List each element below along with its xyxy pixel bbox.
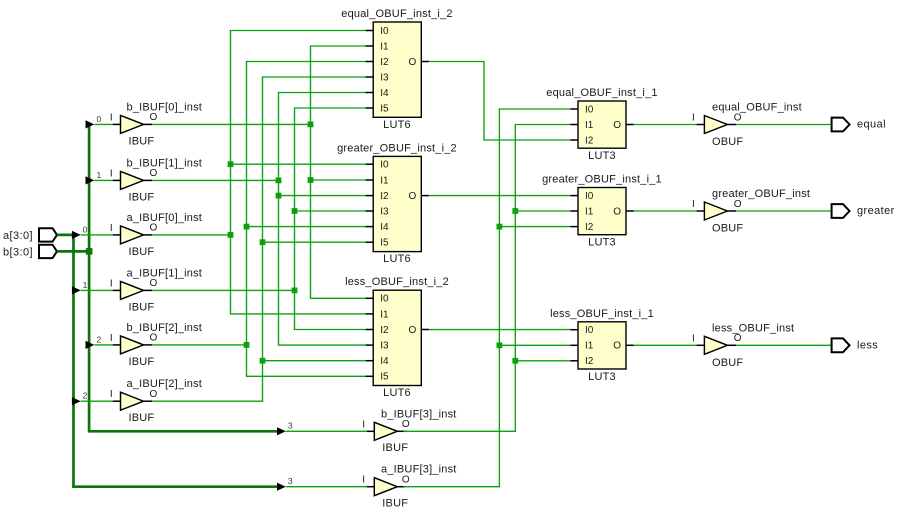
svg-text:equal_OBUF_inst_i_1: equal_OBUF_inst_i_1	[546, 87, 657, 99]
bus tap arrow a[1] bit 1	[72, 280, 88, 295]
svg-text:b_IBUF[0]_inst: b_IBUF[0]_inst	[127, 101, 203, 113]
wire a3 to greater_i_1 I2	[497, 224, 571, 230]
svg-text:a_IBUF[2]_inst: a_IBUF[2]_inst	[127, 378, 203, 390]
junction a0 source	[228, 232, 234, 238]
svg-text:IBUF: IBUF	[382, 442, 408, 454]
wire net a2 vertical	[262, 77, 264, 401]
svg-text:I3: I3	[380, 72, 389, 83]
wire a3 to equal_i_1 I0	[499, 108, 571, 110]
svg-text:I: I	[110, 168, 113, 179]
svg-text:I3: I3	[380, 206, 389, 217]
svg-text:O: O	[150, 223, 158, 234]
LUT6 greater_OBUF_inst_i_2	[337, 142, 457, 265]
wire a0 to less_i_2 I1	[230, 313, 366, 315]
svg-text:OBUF: OBUF	[712, 357, 743, 369]
svg-text:O: O	[409, 191, 417, 202]
svg-text:I: I	[110, 112, 113, 123]
svg-text:2: 2	[97, 334, 102, 344]
wire a2 to greater_i_2 I5	[260, 239, 366, 245]
svg-text:I: I	[110, 223, 113, 234]
wire a[1] tap to IBUF	[81, 289, 113, 291]
svg-text:LUT3: LUT3	[588, 150, 616, 162]
wire a2 to equal_i_2 I3	[262, 76, 366, 78]
bus wire a[3:0] vertical	[72, 235, 75, 487]
svg-text:equal_OBUF_inst: equal_OBUF_inst	[712, 102, 802, 114]
svg-text:O: O	[409, 325, 417, 336]
wire net a3 vertical	[498, 109, 500, 487]
svg-text:LUT3: LUT3	[588, 237, 616, 249]
bus tap arrow a[3] bit 3	[277, 476, 293, 491]
svg-text:O: O	[734, 199, 742, 210]
wire net b0 vertical	[310, 46, 312, 298]
svg-text:O: O	[734, 112, 742, 123]
svg-text:IBUF: IBUF	[129, 356, 155, 368]
wire b2 to greater_i_2 I4	[244, 224, 366, 230]
svg-text:O: O	[150, 333, 158, 344]
bus tap arrow b[2] bit 2	[86, 334, 102, 349]
svg-text:O: O	[409, 57, 417, 68]
svg-text:a_IBUF[3]_inst: a_IBUF[3]_inst	[381, 464, 457, 476]
LUT3 less_OBUF_inst_i_1	[550, 308, 654, 383]
svg-text:I0: I0	[585, 191, 594, 202]
svg-text:O: O	[150, 278, 158, 289]
svg-text:OBUF: OBUF	[712, 223, 743, 235]
wire b0 to greater_i_2 I1	[308, 177, 366, 183]
wire b1 to greater_i_2 I2	[276, 193, 366, 199]
junction a1 source	[292, 288, 298, 294]
bus wire a[3:0] horizontal from port	[57, 234, 75, 237]
svg-text:I4: I4	[380, 222, 389, 233]
svg-text:I2: I2	[380, 57, 389, 68]
wire a0 to equal_i_2 I0	[230, 30, 366, 32]
svg-text:equal_OBUF_inst_i_2: equal_OBUF_inst_i_2	[341, 8, 452, 20]
svg-text:a[3:0]: a[3:0]	[3, 230, 33, 242]
svg-text:I: I	[362, 419, 365, 430]
wire net a0 vertical	[230, 31, 232, 314]
wire a1 IBUF output to node	[152, 289, 294, 291]
LUT6 less_OBUF_inst_i_2	[345, 276, 449, 399]
svg-text:LUT6: LUT6	[383, 253, 411, 265]
svg-text:O: O	[613, 206, 621, 217]
LUT3 equal_OBUF_inst_i_1	[546, 87, 657, 162]
wire b0 to equal_i_2 I1	[310, 45, 366, 47]
output port equal	[832, 118, 886, 132]
svg-text:O: O	[613, 120, 621, 131]
svg-text:b_IBUF[2]_inst: b_IBUF[2]_inst	[127, 322, 203, 334]
svg-text:less: less	[857, 340, 878, 352]
svg-text:I2: I2	[585, 356, 594, 367]
svg-text:3: 3	[288, 421, 293, 431]
svg-text:IBUF: IBUF	[129, 135, 155, 147]
svg-text:0: 0	[97, 114, 102, 124]
svg-text:I: I	[692, 113, 695, 124]
buffer a_IBUF[1]_inst (IBUF)	[110, 267, 202, 313]
svg-text:less_OBUF_inst_i_2: less_OBUF_inst_i_2	[345, 276, 449, 288]
svg-text:b_IBUF[1]_inst: b_IBUF[1]_inst	[127, 157, 203, 169]
wire b3 IBUF output	[403, 430, 516, 432]
svg-text:I1: I1	[585, 341, 594, 352]
wire a[0] tap to IBUF	[81, 234, 113, 236]
buffer b_IBUF[0]_inst (IBUF)	[110, 101, 202, 147]
wire b[1] tap to IBUF	[94, 179, 112, 181]
svg-text:O: O	[150, 168, 158, 179]
svg-text:I5: I5	[380, 372, 389, 383]
svg-text:b_IBUF[3]_inst: b_IBUF[3]_inst	[381, 408, 457, 420]
wire b3 to equal_i_1 I1	[515, 124, 571, 126]
bus wire b[3:0] vertical	[88, 124, 91, 431]
junction b1 source	[276, 178, 282, 184]
wire a0 IBUF output to node	[152, 234, 230, 236]
bus tap arrow b[3] bit 3	[277, 421, 293, 436]
svg-text:IBUF: IBUF	[129, 412, 155, 424]
svg-text:IBUF: IBUF	[129, 191, 155, 203]
wire net a1 vertical	[294, 108, 296, 330]
svg-text:I5: I5	[380, 103, 389, 114]
svg-text:I4: I4	[380, 356, 389, 367]
buffer greater_OBUF_inst (OBUF)	[692, 188, 810, 235]
svg-text:I1: I1	[585, 120, 594, 131]
svg-text:I2: I2	[380, 325, 389, 336]
svg-text:I2: I2	[380, 191, 389, 202]
wire a2 to less_i_2 I4	[260, 358, 366, 364]
buffer equal_OBUF_inst (OBUF)	[692, 102, 802, 149]
svg-text:I0: I0	[380, 26, 389, 37]
bus tap arrow a[0] bit 0	[72, 224, 88, 239]
svg-text:2: 2	[83, 391, 88, 401]
svg-text:I0: I0	[380, 160, 389, 171]
wire a0 to greater_i_2 I0	[228, 161, 366, 167]
svg-text:1: 1	[83, 280, 88, 290]
wire OBUF to equal port	[736, 124, 832, 126]
wire b[0] tap to IBUF	[94, 123, 112, 125]
wire a3 IBUF output	[403, 486, 500, 488]
svg-text:I1: I1	[380, 175, 389, 186]
wire net b1 vertical	[278, 93, 280, 346]
svg-text:I2: I2	[585, 135, 594, 146]
svg-text:I0: I0	[585, 104, 594, 115]
wire b3 to less_i_1 I2	[512, 358, 570, 364]
bus junction b[3:0]	[86, 248, 93, 255]
svg-text:LUT6: LUT6	[383, 387, 411, 399]
svg-text:greater_OBUF_inst_i_1: greater_OBUF_inst_i_1	[542, 174, 662, 186]
wire b1 to less_i_2 I3	[278, 344, 366, 346]
bus wire a[3:0] bottom horizontal to a[3] tap	[72, 485, 277, 488]
wire a2 IBUF output to corner	[152, 400, 263, 402]
bus tap arrow b[1] bit 1	[86, 170, 102, 185]
svg-text:IBUF: IBUF	[382, 498, 408, 510]
svg-text:I: I	[362, 475, 365, 486]
svg-text:I0: I0	[585, 325, 594, 336]
svg-text:I: I	[110, 278, 113, 289]
bus tap arrow a[2] bit 2	[72, 391, 88, 406]
wire net b2 vertical	[246, 62, 248, 377]
bus wire b[3:0] bottom horizontal to b[3] tap	[88, 430, 277, 433]
wire less_i_1 to OBUF	[634, 344, 697, 346]
svg-text:O: O	[613, 341, 621, 352]
wire b2 IBUF output to node	[152, 344, 246, 346]
LUT6 equal_OBUF_inst_i_2	[341, 8, 452, 131]
svg-text:greater_OBUF_inst_i_2: greater_OBUF_inst_i_2	[337, 142, 457, 154]
svg-text:LUT3: LUT3	[588, 371, 616, 383]
wire a3 to less_i_1 I1	[497, 342, 571, 348]
svg-text:greater: greater	[857, 205, 895, 217]
svg-text:O: O	[402, 419, 410, 430]
wire a[2] tap to IBUF	[81, 400, 113, 402]
wire a[3] tap to IBUF	[286, 486, 367, 488]
output port greater	[832, 204, 895, 218]
wire equal_i_2 output jog	[429, 62, 571, 141]
svg-text:I1: I1	[380, 309, 389, 320]
svg-text:3: 3	[288, 476, 293, 486]
wire b1 IBUF output to node	[152, 179, 278, 181]
svg-text:O: O	[150, 389, 158, 400]
input port a[3:0]	[3, 228, 57, 242]
wire greater_i_1 to OBUF	[634, 210, 697, 212]
wire a1 to equal_i_2 I5	[294, 107, 366, 109]
wire b2 to equal_i_2 I2	[246, 61, 366, 63]
buffer less_OBUF_inst (OBUF)	[692, 322, 794, 369]
svg-text:I4: I4	[380, 88, 389, 99]
wire b0 to less_i_2 I0	[310, 297, 366, 299]
svg-text:I0: I0	[380, 294, 389, 305]
svg-text:O: O	[402, 475, 410, 486]
svg-text:I: I	[692, 199, 695, 210]
wire less_i_2 output to LUT3	[429, 329, 571, 331]
svg-text:O: O	[734, 333, 742, 344]
junction b2 source	[244, 342, 250, 348]
wire b2 to less_i_2 I5	[246, 375, 366, 377]
wire b[3] tap to IBUF	[286, 430, 367, 432]
svg-text:equal: equal	[857, 119, 886, 131]
svg-text:I: I	[110, 389, 113, 400]
wire a1 to greater_i_2 I3	[292, 208, 366, 214]
wire net b3 vertical	[514, 125, 516, 432]
svg-text:b[3:0]: b[3:0]	[3, 247, 33, 259]
LUT3 greater_OBUF_inst_i_1	[542, 174, 662, 249]
svg-text:I3: I3	[380, 341, 389, 352]
svg-text:less_OBUF_inst: less_OBUF_inst	[712, 322, 794, 334]
buffer b_IBUF[3]_inst (IBUF)	[362, 408, 456, 454]
buffer b_IBUF[2]_inst (IBUF)	[110, 322, 202, 368]
output port less	[832, 338, 879, 352]
buffer b_IBUF[1]_inst (IBUF)	[110, 157, 202, 203]
wire b0 IBUF output to node	[152, 123, 310, 125]
wire b3 to greater_i_1 I1	[512, 208, 570, 214]
input port b[3:0]	[3, 245, 57, 259]
svg-text:1: 1	[97, 170, 102, 180]
svg-text:I1: I1	[585, 206, 594, 217]
svg-text:greater_OBUF_inst: greater_OBUF_inst	[712, 188, 810, 200]
svg-text:a_IBUF[0]_inst: a_IBUF[0]_inst	[127, 212, 203, 224]
svg-text:I: I	[692, 333, 695, 344]
svg-text:IBUF: IBUF	[129, 301, 155, 313]
wire greater_i_2 output to LUT3	[429, 195, 571, 197]
wire OBUF to less port	[736, 344, 832, 346]
svg-text:I5: I5	[380, 238, 389, 249]
wire OBUF to greater port	[736, 210, 832, 212]
svg-text:O: O	[150, 112, 158, 123]
wire equal_i_1 to OBUF	[634, 124, 697, 126]
svg-text:LUT6: LUT6	[383, 119, 411, 131]
svg-text:OBUF: OBUF	[712, 136, 743, 148]
buffer a_IBUF[0]_inst (IBUF)	[110, 212, 202, 258]
junction b0 source	[308, 122, 314, 128]
wire b[2] tap to IBUF	[94, 344, 112, 346]
svg-text:a_IBUF[1]_inst: a_IBUF[1]_inst	[127, 267, 203, 279]
bus tap arrow b[0] bit 0	[86, 114, 102, 129]
buffer a_IBUF[3]_inst (IBUF)	[362, 464, 456, 510]
svg-text:I2: I2	[585, 222, 594, 233]
svg-text:0: 0	[83, 224, 88, 234]
svg-text:less_OBUF_inst_i_1: less_OBUF_inst_i_1	[550, 308, 654, 320]
svg-text:I1: I1	[380, 41, 389, 52]
wire b1 to equal_i_2 I4	[278, 92, 366, 94]
bus wire b[3:0] horizontal from port	[57, 250, 89, 253]
svg-text:I: I	[110, 333, 113, 344]
wire a1 to less_i_2 I2	[294, 329, 366, 331]
buffer a_IBUF[2]_inst (IBUF)	[110, 378, 202, 424]
svg-text:IBUF: IBUF	[129, 246, 155, 258]
